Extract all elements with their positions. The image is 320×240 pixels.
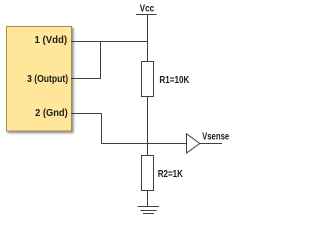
- Vsense net label: [202, 130, 229, 142]
- wire divider node to Vsense buffer: [102, 143, 187, 145]
- wire R1 bottom to R2 top (through node): [147, 97, 149, 156]
- wire pin3 (Output) horizontal: [71, 78, 101, 80]
- resistor R2 body: [142, 156, 154, 191]
- wire pin2 (Gnd) horizontal: [71, 113, 102, 115]
- wire stub pin3 (Output) up to Vdd wire: [100, 42, 102, 79]
- wire R2 bottom to ground: [147, 191, 149, 207]
- svg-text:1 (Vdd): 1 (Vdd): [35, 34, 68, 46]
- wire pin2 (Gnd) down to divider node: [101, 114, 103, 144]
- R2 value label R2=1K: [158, 168, 184, 180]
- R1 value label R1=10K: [159, 74, 189, 86]
- svg-text:3 (Output): 3 (Output): [27, 73, 68, 85]
- wire pin1 (Vdd) to Vcc rail: [71, 41, 148, 43]
- wire buffer output: [200, 143, 222, 145]
- svg-text:Vsense: Vsense: [202, 130, 229, 142]
- Vcc net label: [140, 3, 155, 15]
- wire Vcc bar to R1 top: [147, 15, 149, 62]
- Vcc power rail bar: [136, 14, 157, 16]
- IC U1 (3-pin sensor box): [7, 27, 72, 132]
- Vsense buffer triangle: [187, 134, 200, 153]
- pin 1 label (Vdd): [35, 34, 68, 46]
- pin 3 label (Output): [27, 73, 68, 85]
- pin 2 label (Gnd): [35, 107, 68, 119]
- svg-text:Vcc: Vcc: [140, 3, 155, 15]
- svg-text:2 (Gnd): 2 (Gnd): [35, 107, 68, 119]
- resistor R1 body: [142, 62, 154, 97]
- svg-text:R2=1K: R2=1K: [158, 168, 184, 180]
- svg-text:R1=10K: R1=10K: [159, 74, 189, 86]
- ground symbol: [138, 207, 160, 214]
